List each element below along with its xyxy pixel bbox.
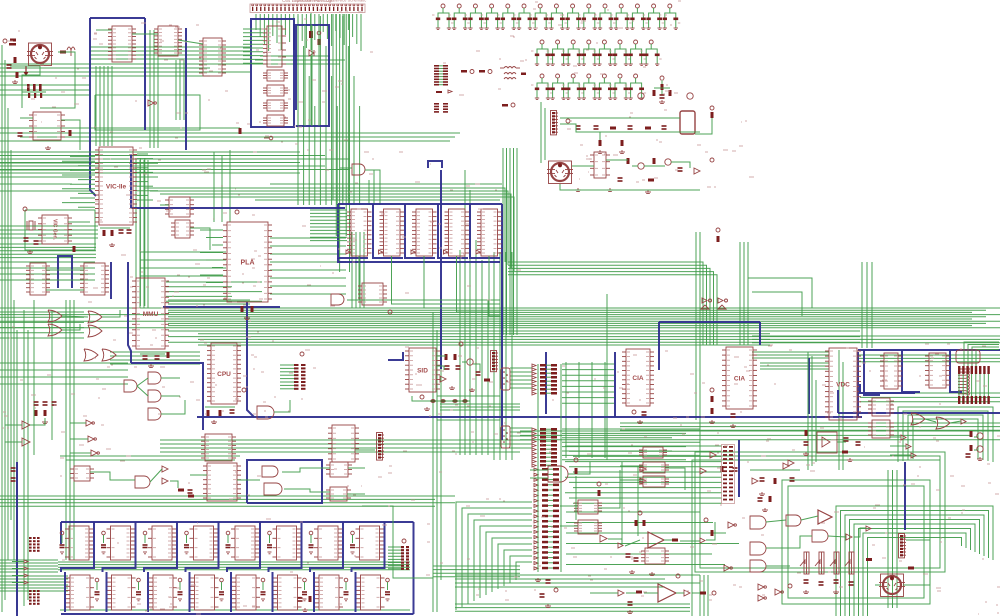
- bus - control logic box right: [296, 25, 329, 126]
- IC U56: [326, 462, 352, 477]
- DRAM b2: [149, 575, 177, 610]
- IC U32: [108, 26, 136, 62]
- capacitor C43: [628, 126, 633, 129]
- wire bus - under CIA horizontals: [620, 423, 1000, 430]
- bus - control logic box left: [251, 19, 294, 128]
- wire bus - keyboard to CIA mesh: [562, 362, 700, 460]
- resistor R52: [643, 520, 646, 526]
- diode CR12: [700, 468, 706, 474]
- connector CN9 RGBI: [956, 350, 980, 395]
- ground: [535, 578, 541, 582]
- capacitor C24: [659, 4, 681, 29]
- flip-flop U34b: [263, 85, 288, 96]
- OR gate U37d: [88, 325, 102, 337]
- capacitor C10: [432, 4, 454, 29]
- capacitor C106: [819, 582, 824, 585]
- test point TP12: [459, 342, 463, 346]
- inverter U54a: [640, 466, 646, 472]
- resistor R2: [60, 51, 66, 54]
- bus - DRAM row2 combs: [65, 572, 356, 612]
- svg-text:MMU: MMU: [143, 311, 159, 318]
- wire: [608, 539, 622, 545]
- wire: [644, 165, 665, 167]
- ground: [607, 188, 613, 192]
- resistor R25: [167, 352, 170, 358]
- wire bus - verticals into PLA top: [214, 150, 230, 222]
- op-amp U64: [658, 584, 676, 602]
- wire bus - bottom center horizontals: [455, 575, 700, 587]
- DRAM a4: [231, 526, 259, 560]
- capacitor C17: [545, 4, 567, 29]
- IC U30: [199, 38, 226, 76]
- resistor R57: [700, 592, 706, 595]
- resistor R10: [610, 127, 616, 130]
- resistor R46: [188, 495, 194, 498]
- capacitor C97: [385, 578, 390, 601]
- resistor R41: [805, 430, 808, 436]
- resistor R31: [454, 354, 457, 360]
- connector P6 user port stub: [280, 364, 306, 390]
- bus - VIC to PLA vertical: [90, 150, 345, 208]
- wire bus - far right verticals: [888, 470, 897, 608]
- trimmer R60: [800, 552, 809, 574]
- wire bus - bottom right nested loops to keyboard connector: [836, 506, 993, 616]
- capacitor C14: [497, 4, 519, 29]
- ground: [211, 420, 217, 424]
- ground: [977, 457, 983, 461]
- capacitor C27: [562, 40, 584, 65]
- bus - display enable loop right: [428, 161, 442, 369]
- diode CR10: [752, 478, 758, 484]
- wire bus - trunk left stubs: [0, 312, 84, 338]
- wire bus - RGBI top corner: [964, 342, 999, 366]
- capacitor C45: [618, 178, 623, 181]
- bus - long horizontal under CIAs: [197, 416, 862, 418]
- capacitor C23: [643, 4, 665, 29]
- wire: [70, 422, 86, 424]
- OR gate U38a: [84, 349, 98, 361]
- ground: [148, 364, 154, 368]
- vcc node: [710, 388, 714, 392]
- wire bus - control port wires: [510, 368, 532, 448]
- resistor R15: [627, 158, 630, 164]
- AND gate U39c: [148, 390, 161, 402]
- wire bus - DRAM row interconnect: [58, 562, 410, 610]
- bus - cassette blue stub: [904, 462, 906, 530]
- svg-text:VIC-IIe: VIC-IIe: [106, 183, 127, 190]
- capacitor C95: [188, 490, 193, 493]
- wire: [10, 66, 40, 108]
- test point TP8: [23, 207, 27, 211]
- svg-text:VDC: VDC: [836, 381, 850, 388]
- svg-text:CIA: CIA: [734, 375, 746, 382]
- test point TP17: [574, 458, 578, 462]
- wire bus - nested corner fan to keyboard: [456, 502, 532, 610]
- capacitor C32: [640, 40, 662, 65]
- capacitor C93: [219, 578, 224, 601]
- capacitor C26: [547, 40, 569, 65]
- resistor R32: [484, 379, 490, 382]
- ground: [244, 316, 250, 320]
- test point TP1: [264, 136, 273, 140]
- wire bus - left column mesh booster: [0, 163, 226, 455]
- IC U43: [203, 463, 241, 501]
- resistor R6: [318, 39, 321, 45]
- capacitor C80: [60, 531, 65, 554]
- ground: [637, 420, 643, 424]
- wire - control box internal verticals: [298, 25, 319, 126]
- capacitor C76: [856, 442, 861, 445]
- capacitor C16: [529, 4, 551, 29]
- capacitor C70: [642, 412, 647, 415]
- wire bus - verticals from connector to ROM area: [333, 14, 350, 272]
- ground: [45, 146, 51, 150]
- wire bus - right side nested loops mid: [839, 350, 993, 470]
- wire: [102, 310, 120, 317]
- resistor R38: [774, 478, 777, 484]
- DRAM a3: [190, 526, 218, 560]
- wire: [68, 221, 90, 223]
- wire - VIC left pin wires: [62, 152, 95, 207]
- flip-flop U35a: [263, 100, 288, 111]
- capacitor C109: [758, 498, 763, 501]
- wire: [96, 29, 112, 31]
- wire bus - right of ROM extra verticals: [494, 252, 512, 460]
- wire: [140, 353, 165, 355]
- connector CN1 expansion port: [250, 4, 365, 13]
- capacitor C29: [593, 40, 615, 65]
- IC U4 CIA: [722, 347, 757, 409]
- wire: [750, 469, 800, 471]
- capacitor C62: [52, 402, 57, 405]
- capacitor C69: [540, 594, 545, 597]
- transistor Q2: [687, 93, 693, 99]
- connector CN11 keyboard header: [899, 534, 907, 558]
- capacitor C42: [594, 126, 599, 129]
- vcc node: [710, 106, 714, 110]
- wire: [22, 91, 46, 93]
- resistor R12: [599, 140, 602, 146]
- resistor R24: [251, 306, 254, 312]
- inverter U52b: [162, 478, 168, 484]
- wire: [575, 476, 577, 520]
- DRAM b7: [357, 575, 385, 610]
- capacitor C110: [430, 399, 468, 403]
- capacitor C100: [626, 554, 631, 557]
- AND gate U65b: [750, 542, 766, 555]
- capacitor C21: [610, 4, 632, 29]
- capacitor C108: [849, 582, 854, 585]
- wire: [599, 132, 601, 140]
- resistor R17: [648, 179, 654, 182]
- bus - top left vertical: [90, 18, 186, 150]
- wire: [137, 378, 148, 386]
- IC U57: [326, 487, 351, 501]
- ground: [833, 590, 839, 594]
- ground: [803, 452, 809, 456]
- wire - ROM address fan: [310, 210, 347, 241]
- transistor Q5: [665, 159, 671, 165]
- test point arrow row: [436, 90, 452, 93]
- connector P3 RAM select: [29, 537, 40, 552]
- connector P4 RAM select: [29, 590, 40, 605]
- enable flag: [379, 250, 383, 254]
- IC U29: [263, 26, 286, 67]
- connector CN10: [377, 433, 385, 461]
- test point TP9: [235, 210, 239, 214]
- capacitor C3: [18, 133, 23, 136]
- test point TP6: [566, 119, 570, 123]
- capacitor C90: [95, 578, 100, 601]
- wire - RGBI fan: [959, 374, 988, 396]
- inverter U46c: [961, 419, 966, 424]
- wire - box1 fan left: [243, 29, 263, 63]
- test point TP3: [461, 70, 474, 74]
- capacitor C28: [578, 40, 600, 65]
- capacitor C87: [350, 531, 355, 554]
- DRAM b6: [315, 575, 343, 610]
- resistor R16: [653, 158, 656, 164]
- wire bus - left of VDC verticals: [808, 352, 816, 470]
- DRAM b5: [274, 575, 302, 610]
- crystal oscillator Y2 module: [817, 432, 837, 453]
- wire bus - bottom left feeder: [0, 560, 68, 591]
- ROM1: [380, 209, 405, 256]
- wire - keyboard column vertical: [538, 364, 561, 572]
- wire: [436, 355, 446, 357]
- capacitor C55: [143, 356, 148, 359]
- bus - MMU to CPU: [131, 307, 280, 430]
- ROM0: [347, 209, 372, 256]
- resistor R29: [44, 410, 47, 416]
- capacitor C84: [226, 531, 231, 554]
- wire: [560, 117, 680, 119]
- resistor R70: [16, 72, 19, 78]
- ground: [109, 243, 115, 247]
- resistor R13: [621, 140, 624, 146]
- wire: [62, 316, 88, 317]
- capacitor C105: [804, 580, 809, 583]
- inverter U47b: [906, 444, 911, 449]
- wire bus - mid horizontals under MMU: [110, 300, 250, 364]
- trimmer R61: [815, 552, 824, 574]
- bus - SID left entry: [388, 352, 403, 360]
- wire bus - extra horizontals above ROM row: [255, 184, 502, 200]
- wire: [362, 506, 433, 578]
- ground: [42, 420, 48, 424]
- wire: [560, 184, 700, 190]
- transistor Q6: [467, 359, 473, 365]
- ground: [762, 508, 768, 512]
- wire bus - CIA area verticals: [696, 232, 748, 460]
- capacitor C35: [562, 74, 584, 99]
- test point TP21: [420, 395, 424, 399]
- capacitor C37: [593, 74, 615, 99]
- ground: [629, 570, 635, 574]
- capacitor C85: [267, 531, 272, 554]
- test point TP5: [502, 103, 515, 107]
- resistor R54: [711, 530, 714, 536]
- capacitor C98: [733, 468, 738, 471]
- ground: [619, 150, 625, 154]
- wire: [590, 592, 618, 594]
- resistor R51: [635, 520, 638, 526]
- inverter U68c: [758, 584, 766, 590]
- ground: [302, 608, 308, 612]
- enable flag: [346, 250, 350, 254]
- wire bus - bottom right extra loops: [692, 452, 945, 616]
- resistor R48: [309, 596, 312, 602]
- pin array P1: [434, 65, 448, 86]
- enable flag: [444, 250, 448, 254]
- bus - VDC bus top and RAM combs: [838, 350, 1000, 413]
- wire bus - main horizontal trunk B: [168, 331, 860, 345]
- DRAM a1: [107, 526, 135, 560]
- wire - ROM outputs down: [359, 256, 500, 316]
- inverter U47a: [901, 435, 906, 440]
- wire bus - above DRAM pair: [60, 456, 240, 460]
- test point TP7: [710, 158, 714, 162]
- inverter U68d: [758, 595, 766, 601]
- ground: [545, 604, 551, 608]
- inverter U54b: [640, 478, 646, 484]
- test point TP10: [388, 310, 392, 314]
- connector CN12 serial DIN: [879, 574, 905, 597]
- resistor network RN3 keyboard pullups: [534, 468, 559, 570]
- DRAM a5: [273, 526, 301, 560]
- IC U27: [165, 197, 194, 217]
- transistor Q7: [977, 433, 983, 439]
- capacitor C31: [625, 40, 647, 65]
- AND gate U70: [257, 406, 274, 419]
- vcc node: [716, 228, 720, 232]
- resistor R43: [970, 445, 973, 451]
- resistor R42: [970, 431, 973, 437]
- inductor L1: [500, 67, 520, 69]
- IC U23: [880, 353, 902, 389]
- capacitor C38: [609, 74, 631, 99]
- capacitor C99: [298, 598, 303, 601]
- capacitor C18: [562, 4, 584, 29]
- wire: [310, 13, 312, 31]
- wire bus - right-of-ROM verticals down: [460, 170, 488, 455]
- resistor cluster R71-R73: [27, 84, 42, 98]
- AND gate U65c: [750, 560, 766, 572]
- wire bus - VIC left mesh: [0, 160, 148, 308]
- resistor pack RP1: [958, 366, 990, 374]
- resistor R64: [908, 567, 914, 570]
- trimmer R63: [845, 552, 854, 574]
- capacitor C83: [184, 531, 189, 554]
- transistor Q8: [977, 446, 983, 452]
- connector CN3 control port 2: [501, 426, 510, 448]
- capacitor C12: [464, 4, 486, 29]
- capacitor C13: [481, 4, 503, 29]
- capacitor C39: [625, 74, 647, 99]
- DRAM a7: [356, 526, 384, 560]
- op-amp U67: [818, 510, 832, 524]
- wire - VIC right pin wires: [137, 154, 158, 200]
- OR gate U38b: [102, 349, 116, 361]
- capacitor C78: [966, 454, 971, 457]
- DRAM b3: [191, 575, 219, 610]
- resistor R1: [10, 39, 16, 42]
- OR gate U46b: [936, 417, 950, 429]
- connector CN8 audio: [491, 351, 499, 372]
- wire bus - top left mesh extra: [0, 47, 460, 141]
- IC U25: [868, 398, 894, 416]
- connector P5: [388, 539, 409, 570]
- bus - MMU left: [128, 262, 131, 363]
- resistor pack RP2: [958, 396, 990, 404]
- wire bus - right of MMU mesh: [166, 282, 262, 301]
- diode CR16: [701, 305, 709, 309]
- antenna E1: [67, 47, 75, 56]
- capacitor C51: [127, 230, 132, 233]
- svg-text:CPU: CPU: [217, 371, 231, 378]
- wire: [5, 424, 22, 426]
- wire bus - center vertical trunk: [433, 310, 441, 612]
- AND gate U55a: [262, 466, 278, 477]
- wire: [100, 227, 130, 229]
- resistor network RN1: [532, 364, 557, 395]
- wire: [572, 165, 594, 167]
- svg-text:U64 Commodore 128 Service Sch: U64 Commodore 128 Service Schematic: [294, 0, 366, 3]
- bus - CIA1 verticals: [546, 322, 760, 417]
- wire bus - keyboard fanout horizontals: [566, 512, 739, 565]
- wire: [310, 38, 312, 50]
- capacitor C71: [731, 414, 736, 417]
- diode CR9: [788, 460, 794, 466]
- test point TP20: [300, 352, 304, 356]
- svg-text:SID: SID: [417, 367, 428, 374]
- inverter U54c: [728, 522, 736, 528]
- IC U50: [70, 466, 94, 481]
- resistor R45: [178, 489, 184, 492]
- ground: [759, 492, 765, 496]
- crystal Y1: [27, 221, 35, 230]
- inverter U63a: [618, 590, 624, 596]
- capacitor C102: [628, 602, 633, 605]
- OR gate U46a: [911, 413, 925, 425]
- test point TP11: [242, 388, 246, 392]
- inverter U68a: [846, 534, 852, 540]
- wire: [671, 162, 690, 168]
- resistor R30: [445, 354, 448, 360]
- DRAM b1: [108, 575, 136, 610]
- capacitor C107: [834, 580, 839, 583]
- inverter U40a: [86, 420, 94, 426]
- ground: [847, 458, 853, 462]
- resistor R4: [69, 130, 72, 136]
- wire: [90, 472, 135, 480]
- resistor R14: [711, 112, 714, 118]
- capacitor C30: [609, 40, 631, 65]
- resistor R5: [239, 128, 242, 134]
- op-amp U41b: [22, 438, 30, 446]
- wire bus - top left mesh: [0, 30, 250, 148]
- wire bus - RAS CAS lines to DRAM: [0, 496, 455, 506]
- resistor R55: [575, 468, 578, 474]
- inverter U68b: [866, 526, 871, 531]
- wire: [190, 228, 210, 250]
- AND gate U66b: [812, 530, 828, 542]
- op-amp U60 comparator: [648, 532, 664, 548]
- resistor R53: [672, 539, 678, 542]
- diode CR11: [710, 452, 716, 458]
- wire: [33, 225, 42, 227]
- capacitor cluster C40: [653, 76, 672, 104]
